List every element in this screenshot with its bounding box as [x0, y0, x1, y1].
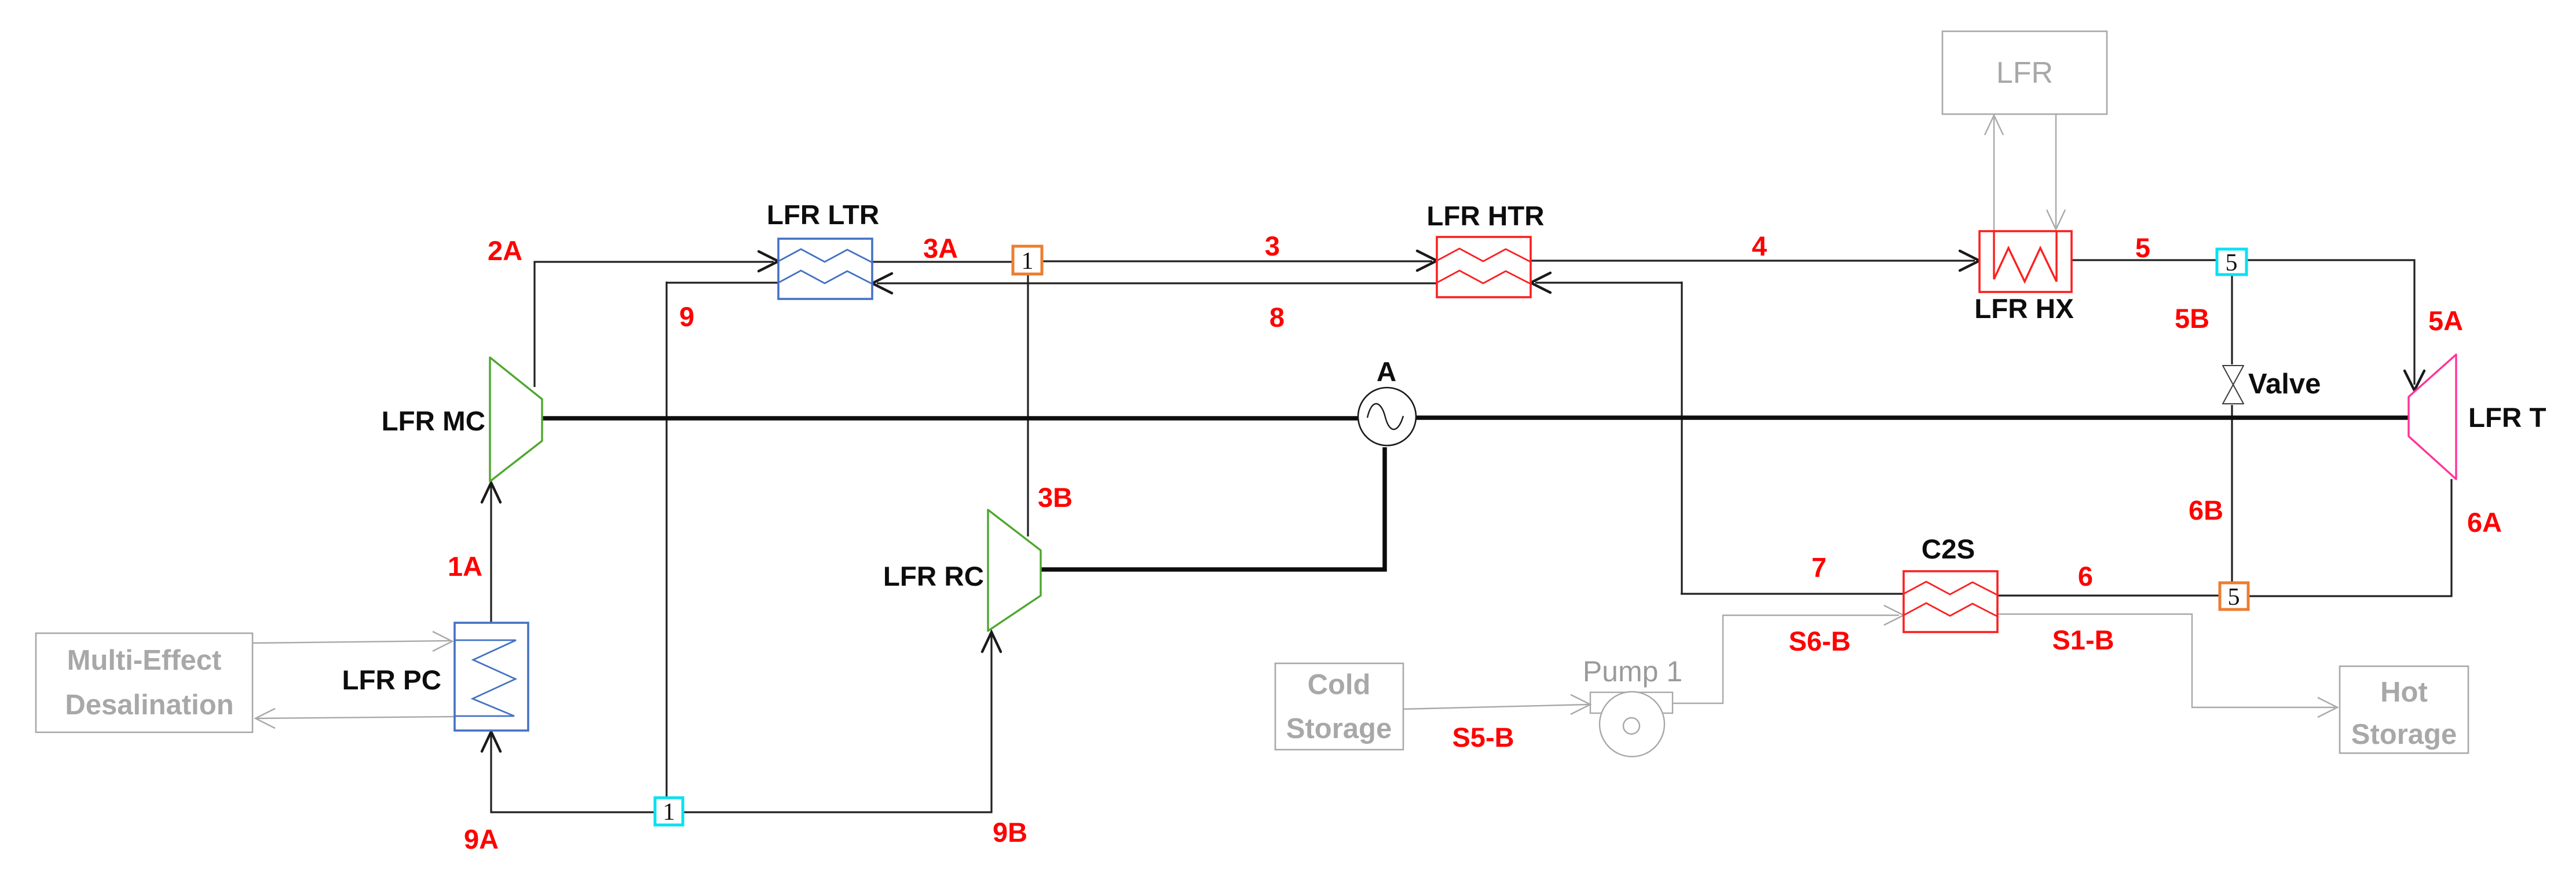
arrow into MED (return): [255, 709, 275, 728]
generator A: [1358, 388, 1416, 446]
heat exchanger LFR HX (solar field HX): [1979, 231, 2072, 292]
gray arrowheads: [255, 115, 2337, 728]
compressor LFR RC: [988, 510, 1041, 631]
node 1 (cyan mixer, lower): [655, 798, 683, 826]
arrow into HTR right (8 inlet): [1531, 273, 1550, 293]
arrow into HX left (4): [1960, 251, 1979, 271]
svg-text:S1-B: S1-B: [2052, 625, 2114, 655]
svg-text:9B: 9B: [993, 817, 1027, 848]
svg-text:7: 7: [1812, 552, 1827, 583]
wire 1A (LFR PC top up into LFR MC): [490, 485, 492, 623]
svg-text:Storage: Storage: [1286, 713, 1392, 744]
svg-text:Storage: Storage: [2351, 719, 2457, 750]
svg-text:Desalination: Desalination: [65, 689, 233, 721]
svg-text:9A: 9A: [464, 824, 499, 855]
arrow into C2S lower left (S6-B): [1884, 605, 1904, 625]
svg-text:2A: 2A: [488, 235, 522, 266]
wire shaft MC to generator: [542, 416, 1359, 421]
svg-text:Hot: Hot: [2380, 677, 2428, 708]
node 5 (orange mixer, lower): [2220, 583, 2248, 611]
pump Pump 1: [1590, 692, 1673, 757]
svg-text:5B: 5B: [2175, 303, 2209, 334]
wire 8 inlet (corner to HTR right): [1535, 282, 1682, 283]
svg-text:1: 1: [663, 799, 675, 826]
compressor LFR MC: [490, 357, 542, 481]
arrow into LTR left (2A): [759, 251, 778, 271]
arrow into LFR PC (from MED): [433, 631, 452, 651]
svg-text:LFR T: LFR T: [2468, 403, 2546, 433]
wire 7 horizontal (to C2S): [1681, 593, 1904, 594]
arrow into RC bottom (9B): [982, 632, 1001, 652]
wire 8 (HTR out left to LTR): [877, 282, 1437, 284]
arrow into Hot Storage (S1-B): [2318, 698, 2337, 717]
shaft lines (thick): [542, 418, 2409, 569]
wire 3A (LTR to node 1): [872, 261, 1013, 262]
wire MED supply to LFR PC: [253, 641, 451, 643]
wire 6 (C2S to node 5 lower): [1997, 594, 2220, 596]
wire 9 horizontal (LTR out left): [666, 282, 778, 283]
wire LFR to HX (down): [2055, 114, 2057, 227]
wire HX to LFR (up): [1993, 118, 1995, 231]
svg-text:5: 5: [2135, 232, 2150, 263]
recuperator LFR LTR: [778, 239, 872, 299]
svg-text:Cold: Cold: [1308, 669, 1371, 700]
svg-text:LFR: LFR: [1996, 56, 2053, 90]
svg-text:1: 1: [1022, 248, 1034, 275]
svg-text:5: 5: [2228, 584, 2240, 611]
wire S5-B Cold Storage to Pump 1: [1403, 704, 1589, 709]
valve (bypass valve): [2223, 366, 2244, 404]
node 1 (orange splitter): [1013, 246, 1042, 275]
svg-text:8: 8: [1269, 302, 1285, 333]
svg-text:LFR HX: LFR HX: [1974, 294, 2074, 324]
svg-text:6B: 6B: [2189, 495, 2223, 525]
wire shaft generator to turbine: [1415, 415, 2409, 420]
wire 4 (HTR to HX): [1531, 260, 1975, 261]
svg-text:LFR MC: LFR MC: [382, 406, 485, 437]
svg-text:3: 3: [1265, 231, 1280, 261]
arrow into HX top (down): [2047, 210, 2065, 229]
svg-text:LFR HTR: LFR HTR: [1426, 201, 1544, 232]
wire S6-B Pump 1 to C2S: [1673, 615, 1899, 703]
svg-text:Multi-Effect: Multi-Effect: [67, 645, 222, 676]
svg-text:4: 4: [1752, 231, 1767, 261]
block LFR (solar field): [1942, 31, 2107, 114]
arrow into LTR right (8): [872, 273, 892, 293]
wire 5A (node 5 right, down into turbine): [2246, 260, 2414, 385]
svg-text:A: A: [1377, 357, 1396, 388]
svg-text:LFR RC: LFR RC: [883, 561, 984, 592]
node 5 (cyan splitter, upper): [2217, 249, 2246, 276]
wire LFR PC return to MED: [257, 717, 455, 718]
svg-text:S6-B: S6-B: [1788, 626, 1850, 656]
svg-text:S5-B: S5-B: [1452, 722, 1514, 753]
wire shaft RC to generator: [1041, 447, 1385, 569]
heat exchanger LFR PC (pre-cooler): [455, 623, 528, 731]
wire 5 (HX to node 5): [2072, 259, 2217, 261]
svg-text:1A: 1A: [448, 551, 482, 582]
svg-text:5A: 5A: [2428, 305, 2463, 336]
svg-text:6: 6: [2078, 561, 2093, 591]
arrow into HTR left (3): [1417, 251, 1437, 271]
svg-text:9: 9: [679, 301, 694, 332]
arrow into PC bottom (9A): [482, 732, 500, 751]
svg-text:LFR PC: LFR PC: [342, 665, 441, 696]
block Hot Storage: [2340, 666, 2468, 753]
wire 6A (node 5 lower right, up to turbine outlet): [2248, 479, 2451, 596]
svg-text:3A: 3A: [923, 233, 958, 264]
block Cold Storage: [1275, 663, 1403, 750]
arrow into MC bottom (1A): [482, 483, 500, 502]
recuperator LFR HTR: [1437, 237, 1531, 297]
svg-text:Valve: Valve: [2248, 368, 2321, 400]
wire 9A (node 1 lower left to LFR PC bottom): [491, 735, 655, 812]
arrow into turbine top (5A): [2405, 371, 2424, 390]
wire 3B (node 1 down into LFR RC top): [1027, 274, 1029, 536]
wire 9 vertical (down to node 1 lower): [665, 282, 667, 798]
svg-text:6A: 6A: [2467, 507, 2502, 538]
block Multi-Effect Desalination: [36, 633, 253, 732]
wire 9B (node 1 lower right up to LFR RC): [683, 635, 991, 812]
svg-text:C2S: C2S: [1922, 534, 1975, 565]
wire 6B (valve down to node 5 lower): [2231, 405, 2233, 583]
wire 2A (MC outlet up and right to LTR): [535, 262, 774, 387]
wire 5B (node 5 down to valve): [2231, 275, 2233, 364]
heat exchanger C2S (cycle-to-storage): [1904, 571, 1997, 632]
wire S1-B C2S to Hot Storage: [1997, 614, 2335, 707]
turbine LFR T: [2409, 355, 2456, 479]
arrow into LFR bottom (up): [1985, 115, 2003, 135]
arrow into Pump 1 inlet: [1571, 695, 1590, 714]
gray wires: [253, 114, 2335, 718]
wire 3 (node 1 to HTR): [1042, 260, 1432, 262]
black arrowheads (open V): [482, 251, 2424, 751]
svg-text:3B: 3B: [1038, 482, 1073, 513]
wire 7 vertical (down from 8 corner): [1681, 282, 1682, 594]
svg-text:5: 5: [2226, 250, 2238, 276]
svg-text:Pump 1: Pump 1: [1583, 655, 1682, 688]
svg-text:LFR LTR: LFR LTR: [767, 200, 879, 231]
